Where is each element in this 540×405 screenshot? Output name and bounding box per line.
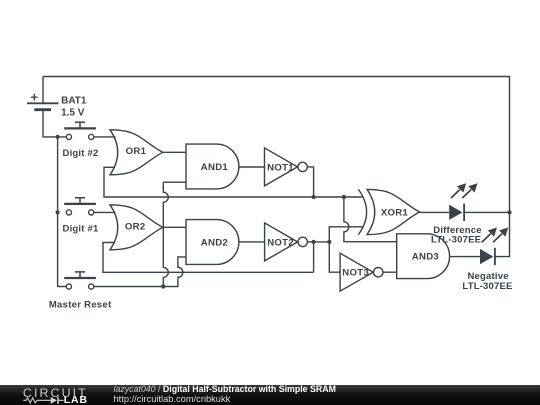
svg-text:NOT2: NOT2 bbox=[267, 237, 294, 248]
svg-text:LAB: LAB bbox=[64, 395, 88, 405]
junction Master Reset net / OR2 output column bbox=[161, 284, 165, 288]
xor-gate XOR1 bbox=[358, 189, 366, 234]
wire top rail from battery to right side bbox=[43, 77, 510, 213]
wire OR1 output to AND1 input A bbox=[163, 151, 186, 153]
wire AND1 input B stub bbox=[163, 181, 186, 183]
svg-text:NOT3: NOT3 bbox=[342, 268, 369, 279]
wire AND1 output to NOT1 bbox=[239, 166, 265, 168]
wire Digit #2 to OR1 input A bbox=[94, 136, 116, 138]
junction battery rail / Digit #2 bbox=[56, 135, 60, 139]
not-gate NOT2 bbox=[265, 223, 298, 261]
svg-text:OR1: OR1 bbox=[126, 146, 147, 157]
LED D2 Negative bbox=[480, 227, 508, 265]
wire battery top lead bbox=[42, 77, 44, 104]
wire NOT2 output bbox=[308, 241, 330, 243]
pushbutton SW Master Reset bbox=[64, 272, 96, 289]
svg-text:Digit #2: Digit #2 bbox=[63, 148, 99, 159]
wire Master Reset to AND2 input B with hop bbox=[94, 257, 186, 287]
svg-text:LTL-307EE: LTL-307EE bbox=[462, 281, 512, 292]
svg-text:http://circuitlab.com/cnbkukk: http://circuitlab.com/cnbkukk bbox=[114, 394, 231, 404]
or-gate OR2 bbox=[110, 205, 163, 250]
svg-text:OR2: OR2 bbox=[125, 221, 146, 232]
pushbutton SW Digit #1 bbox=[64, 198, 96, 215]
wire NOT2 output down leg to feedback bbox=[313, 242, 315, 272]
svg-text:BAT1: BAT1 bbox=[61, 96, 87, 107]
pushbutton SW Digit #2 bbox=[64, 122, 96, 139]
svg-text:AND1: AND1 bbox=[201, 162, 229, 173]
junction NOT1 net / AND3 branch bbox=[342, 195, 346, 199]
wire OR2 output to AND2 input A bbox=[163, 226, 186, 228]
wire NOT3 output to AND3 input B bbox=[383, 271, 397, 273]
junction LED cathode / right rail bbox=[507, 210, 511, 214]
wire NOT1 output down leg bbox=[308, 167, 314, 197]
junction NOT2 output / OR2 feedback leg bbox=[312, 240, 316, 244]
svg-text:AND3: AND3 bbox=[412, 251, 439, 262]
junction NOT1 output / feedback net bbox=[312, 195, 316, 199]
svg-text:1.5 V: 1.5 V bbox=[61, 107, 85, 118]
wire NOT1 node branch to AND3 input A with hop bbox=[344, 197, 397, 242]
junction left rail / Digit #1 bbox=[56, 210, 60, 214]
wire AND2 output to NOT2 bbox=[239, 241, 265, 243]
wire NOT1 feedback to OR1 input B and XOR1 input A bbox=[104, 167, 363, 197]
svg-text:Negative: Negative bbox=[467, 271, 508, 282]
svg-text:XOR1: XOR1 bbox=[381, 207, 409, 218]
battery BAT1 bbox=[27, 94, 59, 110]
svg-text:AND2: AND2 bbox=[201, 238, 228, 249]
svg-text:lazycat040 / Digital Half-Subt: lazycat040 / Digital Half-Subtractor wit… bbox=[114, 384, 336, 394]
and-gate AND3 bbox=[397, 234, 450, 279]
and-gate AND2 bbox=[186, 220, 239, 265]
wire AND3 output to LED2 bbox=[450, 256, 480, 258]
wire right rail LED2 return bbox=[495, 212, 509, 256]
svg-text:NOT1: NOT1 bbox=[267, 162, 294, 173]
wire NOT2 feedback to OR2 input B bbox=[103, 243, 314, 273]
wire NOT2 node to XOR1 input B bbox=[329, 227, 363, 242]
svg-text:Master Reset: Master Reset bbox=[49, 300, 112, 311]
CircuitLab logo bbox=[23, 386, 88, 405]
wire battery bottom lead to Digit #2 bbox=[43, 110, 66, 137]
footer bar bbox=[0, 385, 540, 405]
svg-text:Digit #1: Digit #1 bbox=[63, 223, 99, 234]
and-gate AND1 bbox=[186, 144, 239, 189]
not-gate NOT1 bbox=[265, 148, 298, 186]
LED D1 Difference bbox=[449, 183, 477, 221]
wire vertical OR2 output node with hops bbox=[163, 182, 168, 286]
wire Digit #1 to OR2 input A bbox=[94, 211, 115, 213]
svg-text:LTL-307EE: LTL-307EE bbox=[431, 235, 481, 246]
wire NOT2 node to NOT3 input bbox=[329, 242, 340, 272]
wire LED1 cathode to right rail bbox=[464, 211, 509, 213]
wire XOR1 output to LED1 bbox=[419, 211, 449, 213]
wire left rail down to Master Reset bbox=[58, 137, 67, 287]
not-gate NOT3 bbox=[340, 253, 373, 291]
or-gate OR1 bbox=[110, 130, 163, 175]
junction NOT2 output / XOR1-NOT3 branch bbox=[327, 240, 331, 244]
